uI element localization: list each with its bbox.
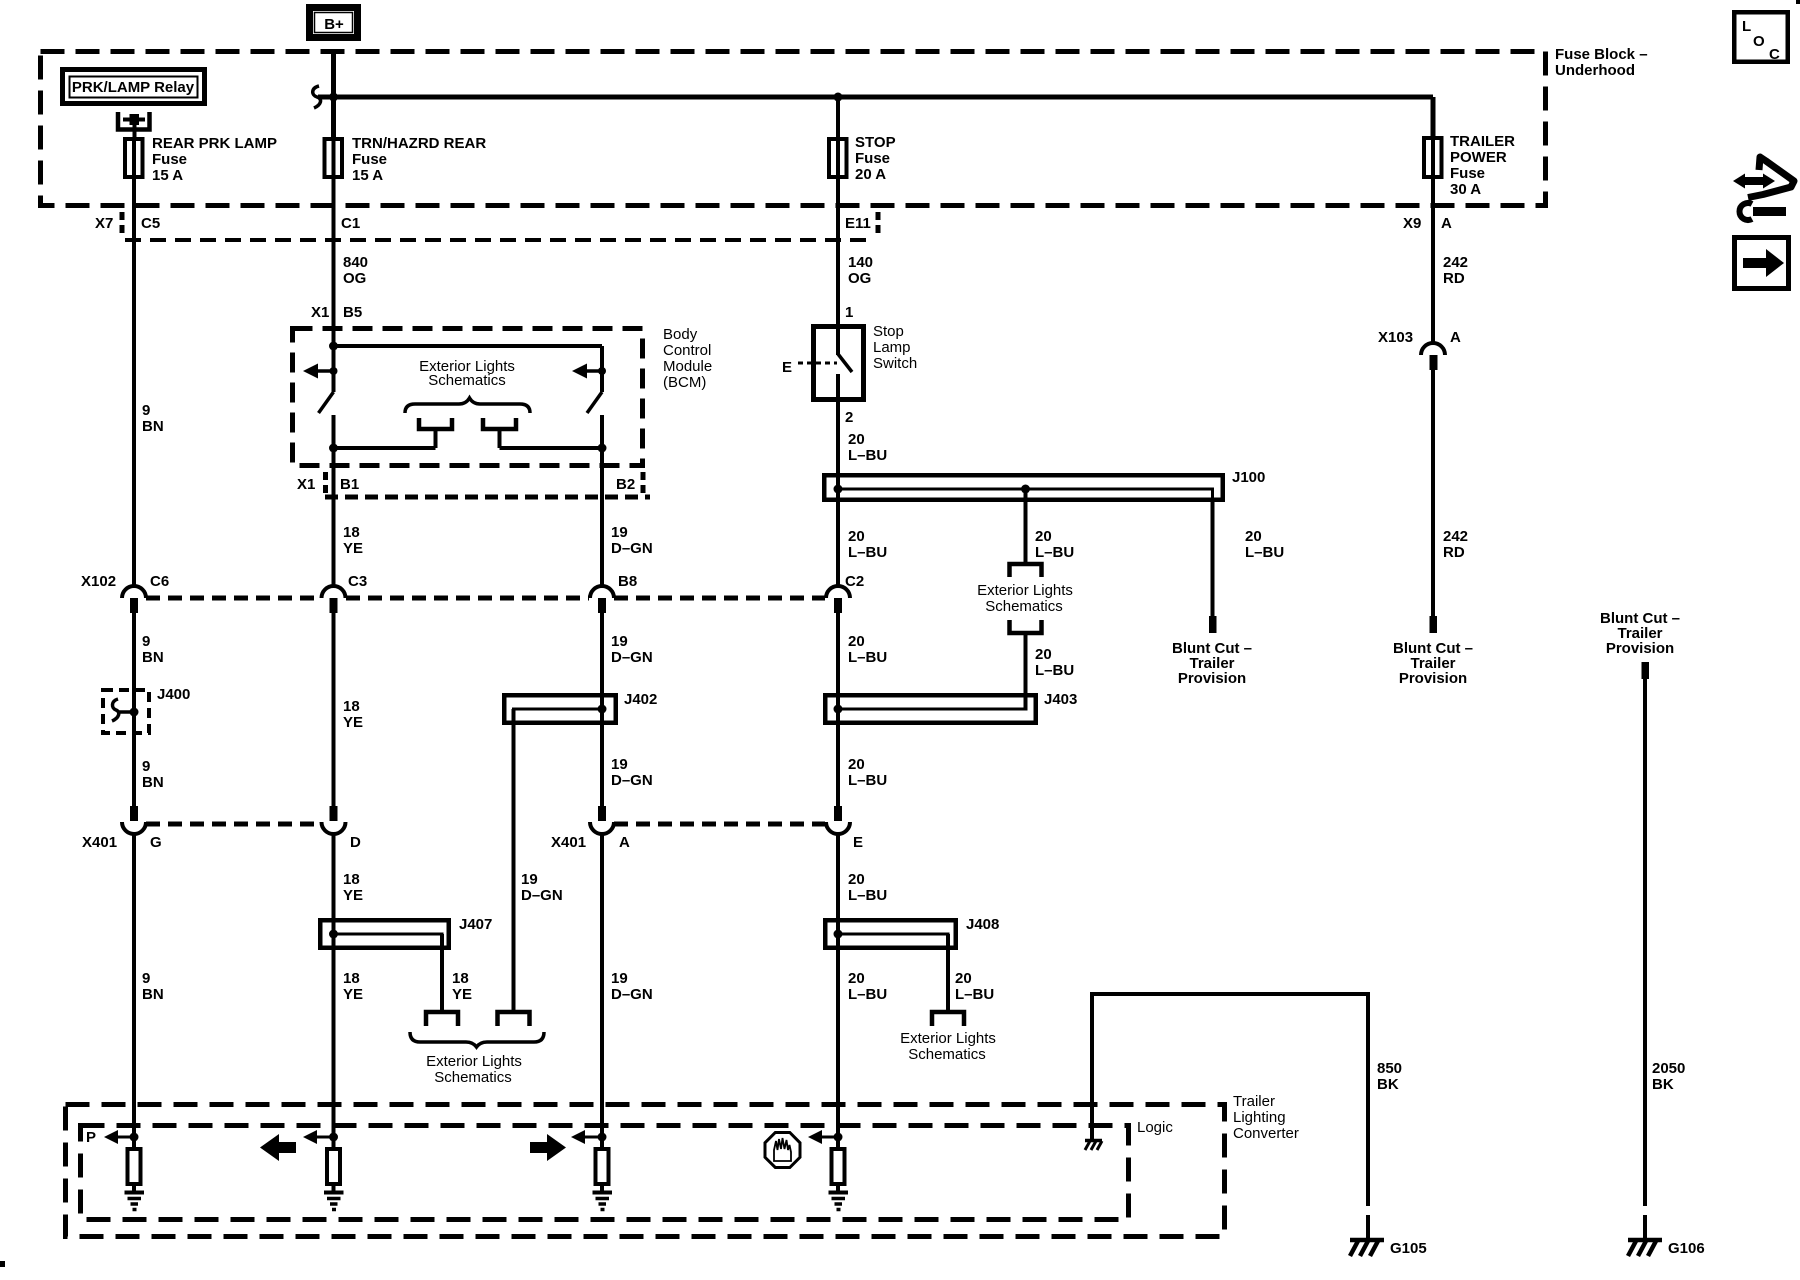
svg-text:BN: BN [142,418,164,435]
svg-text:Schematics: Schematics [428,372,506,389]
svg-text:RD: RD [1443,270,1465,287]
svg-text:TRAILER: TRAILER [1450,133,1515,150]
svg-text:Fuse: Fuse [1450,165,1485,182]
label Body Control Module (BCM) [663,326,712,391]
svg-text:D: D [350,834,361,851]
wire bus corner to TRAILER POWER fuse [1431,97,1436,136]
svg-text:L–BU: L–BU [848,986,887,1003]
svg-text:30 A: 30 A [1450,181,1481,198]
svg-text:9: 9 [142,970,150,987]
svg-text:Exterior Lights: Exterior Lights [900,1030,996,1047]
svg-text:J400: J400 [157,686,190,703]
svg-text:18: 18 [343,524,360,541]
junction dot bus / stop fuse [834,93,843,102]
svg-text:E11: E11 [845,215,871,232]
wire J407 branch down (18 YE) [442,934,472,1010]
connector X401 E [826,806,863,851]
junction dot drop D [329,1133,338,1142]
svg-text:TRN/HAZRD REAR: TRN/HAZRD REAR [352,135,486,152]
label Exterior Lights Schematics (bottom left) [426,1053,522,1086]
svg-text:X1: X1 [311,304,329,321]
svg-text:J408: J408 [966,916,999,933]
svg-text:Switch: Switch [873,355,917,372]
svg-text:2050: 2050 [1652,1060,1685,1077]
relay contact symbol [118,112,150,137]
svg-text:YE: YE [343,887,363,904]
svg-text:9: 9 [142,402,150,419]
bus wire B+ horizontal [318,95,1433,100]
fuse block underhood (dashed box) [41,52,1546,206]
node P output arrow [86,1129,134,1146]
splice pack J407 [320,916,492,950]
svg-text:L–BU: L–BU [848,772,887,789]
svg-text:D–GN: D–GN [611,986,653,1003]
converter element (drop G) [128,1149,141,1184]
svg-text:X401: X401 [82,834,117,851]
junction dot BCM B5 [329,342,338,351]
junction dot drop G [130,1133,139,1142]
trailer lighting converter inner dashed box (logic) [81,1126,1129,1220]
wire B+ feed down [331,49,336,137]
svg-text:Fuse: Fuse [152,151,187,168]
exterior lights tab (J407 branch) [426,1012,458,1026]
svg-text:E: E [853,834,863,851]
svg-text:15 A: 15 A [352,167,383,184]
ground G106 [1628,1240,1705,1257]
svg-text:20: 20 [1035,646,1052,663]
svg-text:C1: C1 [341,215,360,232]
svg-text:YE: YE [343,714,363,731]
small arrow (drop D) [303,1130,334,1144]
svg-text:Lamp: Lamp [873,339,911,356]
connector X401 D [322,806,362,851]
BCM right switch [587,346,602,448]
svg-text:L–BU: L–BU [848,649,887,666]
BCM connector tab left [419,418,452,448]
svg-text:L–BU: L–BU [1035,662,1074,679]
hook symbol at bus left end [313,86,321,108]
power node B+ [310,8,358,38]
exterior lights tab (J402 branch) [498,1012,530,1026]
junction dot bus / B+ [329,93,338,102]
svg-text:G106: G106 [1668,1240,1705,1257]
label Exterior Lights Schematics (BCM) [419,358,515,389]
connector X103 A [1378,329,1461,370]
svg-text:Module: Module [663,358,712,375]
svg-text:18: 18 [343,698,360,715]
splice J400 [103,686,190,733]
svg-text:Provision: Provision [1399,670,1467,687]
svg-text:19: 19 [611,524,628,541]
BCM bottom internal wire right [500,446,603,450]
svg-text:STOP: STOP [855,134,896,151]
svg-text:20: 20 [848,756,865,773]
svg-text:E: E [782,359,792,376]
label Trailer Lighting Converter [1233,1093,1299,1142]
svg-text:D–GN: D–GN [611,772,653,789]
node E drive dashes [782,359,837,376]
svg-text:19: 19 [521,871,538,888]
svg-text:15 A: 15 A [152,167,183,184]
svg-text:C2: C2 [845,573,864,590]
converter element (drop E) [832,1149,845,1184]
BCM connector tab right [483,418,516,448]
relay PRK/LAMP label box [63,70,205,104]
trailer lighting converter outer dashed box [66,1105,1225,1237]
svg-text:L–BU: L–BU [848,447,887,464]
svg-text:Schematics: Schematics [985,598,1063,615]
ground wire 850 BK to G105 [1092,994,1402,1239]
connector X102 C2 [826,573,864,613]
label Stop Lamp Switch [873,323,917,372]
svg-text:J402: J402 [624,691,657,708]
svg-text:OG: OG [343,270,366,287]
svg-text:(BCM): (BCM) [663,374,706,391]
wire G down to converter (9 BN) [134,834,164,1149]
fuse STOP 20 A [829,134,896,183]
svg-text:Fuse: Fuse [352,151,387,168]
svg-text:19: 19 [611,970,628,987]
wire C6 to J400 (9 BN) [134,613,164,806]
BCM bottom internal wire left [334,446,436,450]
svg-text:J100: J100 [1232,469,1265,486]
svg-text:20: 20 [848,528,865,545]
svg-text:G: G [150,834,162,851]
wire fuse X9-A down to X103 (242 RD) [1433,179,1468,344]
svg-text:Lighting: Lighting [1233,1109,1286,1126]
exterior lights schematics stub (mid) [977,564,1073,648]
svg-text:L–BU: L–BU [848,887,887,904]
wire switch to J100 (20 L-BU) [838,402,887,473]
wire 2050 BK to G106 [1645,679,1685,1239]
ground (drop D) [324,1184,344,1210]
connector X102 C3 [322,573,368,613]
svg-text:20: 20 [1245,528,1262,545]
svg-text:Provision: Provision [1606,640,1674,657]
svg-text:Schematics: Schematics [434,1069,512,1086]
svg-text:18: 18 [452,970,469,987]
svg-text:140: 140 [848,254,873,271]
svg-text:9: 9 [142,758,150,775]
svg-text:PRK/LAMP Relay: PRK/LAMP Relay [72,79,195,96]
ground G105 [1350,1240,1427,1257]
wire B1 down to X102-C3 (18 YE) [334,448,364,587]
svg-text:Exterior Lights: Exterior Lights [426,1053,522,1070]
small arrow (drop A) [571,1130,602,1144]
stop lamp switch [814,324,864,402]
svg-text:850: 850 [1377,1060,1402,1077]
svg-text:20: 20 [848,970,865,987]
wire ELS to J403 (20 L-BU) [1026,645,1075,709]
svg-text:1: 1 [845,304,853,321]
svg-text:19: 19 [611,756,628,773]
svg-text:YE: YE [452,986,472,1003]
svg-text:Fuse Block –: Fuse Block – [1555,46,1648,63]
svg-text:L–BU: L–BU [1035,544,1074,561]
svg-text:D–GN: D–GN [611,540,653,557]
svg-text:Body: Body [663,326,698,343]
svg-text:POWER: POWER [1450,149,1507,166]
svg-text:Control: Control [663,342,711,359]
svg-text:L: L [1742,18,1751,35]
splice pack J403 [825,691,1077,723]
svg-text:840: 840 [343,254,368,271]
svg-text:Underhood: Underhood [1555,62,1635,79]
wire C2 down through J403 (20 L-BU) [838,613,887,806]
svg-text:C6: C6 [150,573,169,590]
freehand arrows icon [1733,157,1794,220]
blunt cut (242 RD) [1393,616,1473,687]
svg-text:REAR PRK LAMP: REAR PRK LAMP [152,135,277,152]
svg-text:Logic: Logic [1137,1119,1173,1136]
wire J100 mid branch down (20 L-BU) [1026,489,1075,562]
connector row X1 B1 B2 [297,472,650,497]
wire bus to STOP fuse [836,97,840,137]
connector row X102 dashes [146,596,825,601]
svg-text:18: 18 [343,871,360,888]
svg-text:20: 20 [1035,528,1052,545]
svg-text:20 A: 20 A [855,166,886,183]
svg-text:BK: BK [1652,1076,1674,1093]
connector row X401 dashes [146,822,825,827]
ground (drop E) [829,1184,849,1210]
wire X103 down to blunt cut (242 RD) [1433,369,1468,616]
turn signal bold arrow left [260,1134,296,1161]
svg-text:18: 18 [343,970,360,987]
svg-text:C: C [1769,46,1780,63]
brace exterior lights (bottom left) [410,1032,544,1047]
svg-text:X9: X9 [1403,215,1421,232]
svg-text:YE: YE [343,986,363,1003]
wire B2 down to X102-B8 (19 D-GN) [602,448,653,587]
svg-text:G105: G105 [1390,1240,1427,1257]
wire B8 down through J402 (19 D-GN) [602,613,653,806]
BCM dashed box [293,329,643,466]
pin label X1 B5 [311,304,362,321]
label Exterior Lights Schematics (bottom mid) [900,1030,996,1063]
svg-text:L–BU: L–BU [955,986,994,1003]
wire J408 branch down (20 L-BU) [948,934,994,1010]
turn signal bold arrow right [530,1134,566,1161]
wire D down through J407 (18 YE) [334,834,364,1149]
svg-text:Exterior Lights: Exterior Lights [977,582,1073,599]
svg-text:D–GN: D–GN [521,887,563,904]
svg-text:BN: BN [142,774,164,791]
svg-text:Schematics: Schematics [908,1046,986,1063]
connector X401 G [82,806,162,851]
svg-text:X102: X102 [81,573,116,590]
svg-text:20: 20 [848,633,865,650]
wire J100 to X102-C2 (20 L-BU) [838,502,887,587]
small arrow (drop E) [808,1130,838,1144]
svg-text:Converter: Converter [1233,1125,1299,1142]
svg-text:YE: YE [343,540,363,557]
exterior lights tab (J408 branch) [932,1012,964,1026]
svg-text:RD: RD [1443,544,1465,561]
brace (BCM) [405,398,530,413]
wire J402 branch down (19 D-GN) [514,709,563,1010]
arrow legend box [1735,238,1789,289]
svg-text:X1: X1 [297,476,315,493]
wire J400 to X401-G (9 BN) [142,758,164,791]
svg-text:J403: J403 [1044,691,1077,708]
svg-text:X7: X7 [95,215,113,232]
BCM top internal wire [334,344,603,348]
logic internal ground rake [1085,1141,1102,1151]
fuse TRAILER POWER 30 A [1424,133,1515,198]
label Fuse Block - Underhood [1555,46,1648,79]
wire fuse C5 down to X102 (9 BN) [134,179,164,587]
converter element (drop D) [327,1149,340,1184]
wire J100 right branch down (20 L-BU) [1213,502,1285,616]
stop hand octagon [765,1133,800,1168]
ground (drop G) [125,1184,145,1210]
svg-text:20: 20 [955,970,972,987]
svg-text:L–BU: L–BU [848,544,887,561]
svg-text:20: 20 [848,431,865,448]
svg-text:Provision: Provision [1178,670,1246,687]
junction dot drop E [834,1133,843,1142]
svg-text:Fuse: Fuse [855,150,890,167]
BCM left output arrow [303,364,338,379]
svg-text:9: 9 [142,633,150,650]
splice pack J402 [504,691,657,725]
svg-text:A: A [1441,215,1452,232]
wire C3 to X401-D (18 YE) [334,613,364,806]
converter element (drop A) [596,1149,609,1184]
svg-text:Stop: Stop [873,323,904,340]
svg-text:A: A [619,834,630,851]
svg-text:X103: X103 [1378,329,1413,346]
svg-text:B2: B2 [616,476,635,493]
svg-text:20: 20 [848,871,865,888]
svg-text:B8: B8 [618,573,637,590]
splice pack J100 [824,469,1265,502]
svg-text:BN: BN [142,649,164,666]
svg-text:B5: B5 [343,304,362,321]
connector X102 B8 [590,573,637,613]
blunt cut (J100 branch) [1172,616,1252,687]
blunt cut trailer provision (2050 BK) [1600,610,1680,679]
wire A down to converter (19 D-GN) [602,834,653,1149]
svg-text:A: A [1450,329,1461,346]
fuse REAR PRK LAMP 15 A [125,135,277,184]
wire E down through J408 (20 L-BU) [838,834,887,1149]
svg-text:P: P [86,1129,96,1146]
connector row X7/C5 C1 E11 X9/A [95,212,1452,240]
BCM right output arrow [572,364,606,379]
fuse TRN/HAZRD REAR 15 A [325,135,487,184]
svg-text:D–GN: D–GN [611,649,653,666]
svg-text:19: 19 [611,633,628,650]
svg-text:X401: X401 [551,834,586,851]
svg-text:B+: B+ [324,16,344,33]
svg-text:2: 2 [845,409,853,426]
svg-text:C5: C5 [141,215,160,232]
connector X102 C6 [81,573,169,613]
LOC legend box [1734,12,1788,63]
corner mark top right [1796,0,1800,4]
junction dot BCM B1 [329,444,338,453]
svg-text:C3: C3 [348,573,367,590]
svg-text:B1: B1 [340,476,359,493]
svg-text:242: 242 [1443,528,1468,545]
ground (drop A) [593,1184,613,1210]
wire fuse C1 down to BCM (840 OG) [334,179,369,347]
svg-text:L–BU: L–BU [1245,544,1284,561]
svg-text:OG: OG [848,270,871,287]
svg-text:O: O [1753,33,1765,50]
junction dot BCM B2 [598,444,607,453]
BCM left switch [319,346,334,448]
svg-text:BK: BK [1377,1076,1399,1093]
connector X401 A [551,806,630,851]
wire fuse E11 down to stop lamp switch (140 OG) [838,179,873,355]
svg-text:242: 242 [1443,254,1468,271]
svg-text:Trailer: Trailer [1233,1093,1275,1110]
svg-text:J407: J407 [459,916,492,933]
corner mark bottom left [0,1261,5,1267]
splice pack J408 [825,916,999,950]
svg-text:BN: BN [142,986,164,1003]
junction dot drop A [598,1133,607,1142]
